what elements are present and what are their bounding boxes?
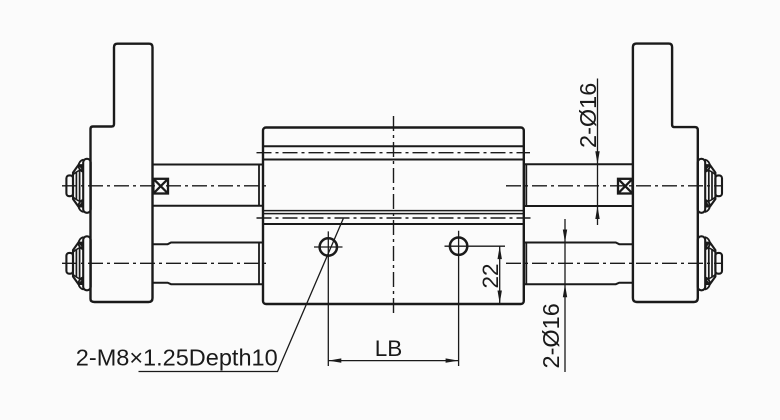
svg-text:LB: LB xyxy=(375,336,403,361)
svg-text:2-M8×1.25Depth10: 2-M8×1.25Depth10 xyxy=(76,345,278,371)
svg-text:22: 22 xyxy=(478,263,503,288)
svg-text:2-Ø16: 2-Ø16 xyxy=(575,83,601,148)
svg-text:2-Ø16: 2-Ø16 xyxy=(538,303,564,368)
